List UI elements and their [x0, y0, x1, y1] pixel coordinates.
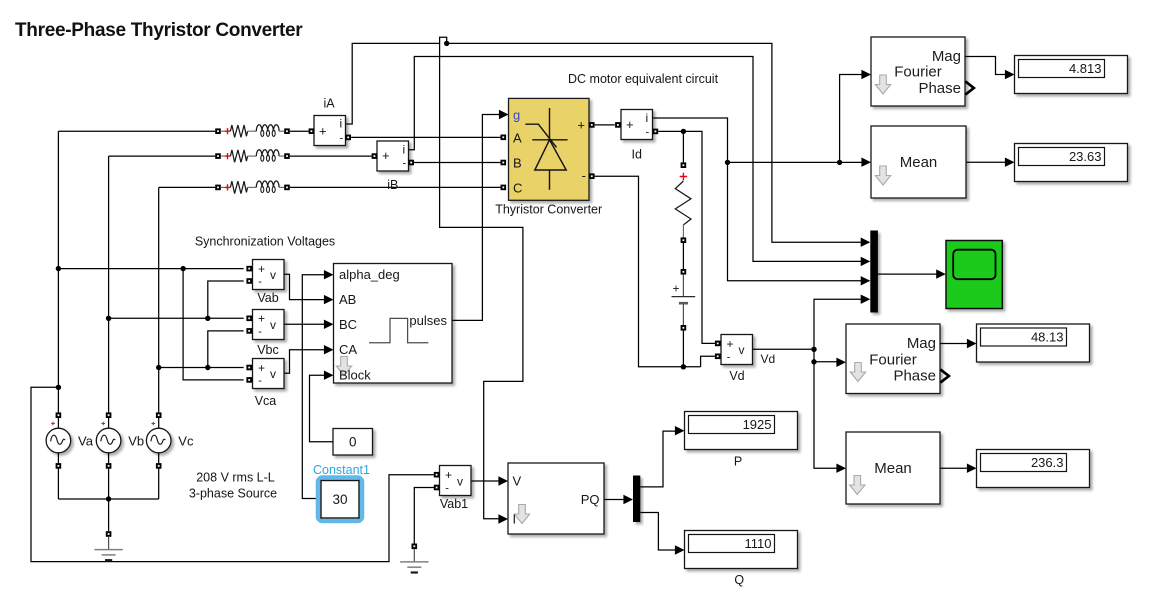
svg-text:iB: iB [387, 178, 398, 192]
wire Mean2 output to display 236.3 [940, 467, 968, 469]
RL branch phase B (series resistor and inductor) [215, 150, 290, 163]
wire constant 30 to alpha_deg input [302, 275, 325, 499]
svg-text:Va: Va [78, 433, 94, 448]
node junction load top [681, 129, 686, 134]
svg-text:I: I [513, 512, 517, 527]
svg-text:Mean: Mean [874, 460, 912, 477]
wire phase C column [158, 187, 160, 412]
svg-text:A: A [513, 130, 522, 145]
scope block (green) [936, 241, 1002, 309]
svg-text:Vab1: Vab1 [440, 497, 468, 511]
wire Vd v output to junction [753, 348, 815, 350]
current measurement block iB [372, 141, 414, 171]
svg-text:+: + [673, 282, 680, 296]
svg-text:iA: iA [323, 97, 335, 111]
synchronized 6-pulse generator block [324, 264, 452, 384]
svg-text:3-phase Source: 3-phase Source [189, 486, 277, 500]
svg-text:+: + [577, 117, 585, 132]
wire Fourier1 Mag to display 4.813 [965, 57, 1006, 75]
svg-text:v: v [270, 318, 276, 332]
svg-text:CA: CA [339, 342, 357, 357]
mux feeding scope [861, 231, 878, 313]
node junction Vab- tie on Vbc+ line [205, 316, 210, 321]
svg-text:i: i [403, 142, 406, 156]
wire Mean1 output to display 23.63 [966, 161, 1006, 163]
node junction load bottom [681, 364, 686, 369]
ground symbol under sources [94, 531, 122, 560]
wire phase B column [108, 156, 110, 412]
svg-text:C: C [513, 180, 522, 195]
svg-text:Phase: Phase [893, 368, 936, 385]
wire iA current signal riser to top run 1 [346, 43, 440, 124]
svg-text:PQ: PQ [581, 492, 600, 507]
svg-text:Mag: Mag [907, 335, 936, 352]
wire resistor bottom to battery top port [682, 243, 684, 269]
svg-text:+: + [626, 117, 634, 132]
svg-text:+: + [258, 361, 265, 375]
svg-text:48.13: 48.13 [1031, 330, 1064, 345]
svg-text:1925: 1925 [743, 417, 772, 432]
wire Vd signal up to mux input 4 [814, 299, 862, 349]
svg-text:Vb: Vb [128, 433, 144, 448]
wire RL C output to bridge C port [290, 186, 501, 188]
wire Vd signal branch to Fourier2 input [814, 361, 837, 363]
wire bridge + output to Id + input [595, 124, 615, 126]
svg-text:-: - [727, 351, 731, 363]
wire iB current signal riser to top run 2 [409, 57, 862, 262]
wire demux out 2 to display Q [640, 513, 676, 551]
svg-text:AB: AB [339, 292, 356, 307]
voltage measurement block Vd [715, 335, 753, 365]
node junction Vd signal upper [811, 347, 816, 352]
svg-text:+: + [319, 123, 327, 138]
wire iA branch down to PQ I input [440, 43, 523, 518]
svg-text:4.813: 4.813 [1069, 61, 1102, 76]
Fourier block 2 [836, 324, 948, 394]
svg-text:v: v [457, 475, 463, 489]
wire battery bottom port down to load bottom [682, 331, 684, 367]
constant block 0 [333, 429, 373, 456]
wire top run 1 to mux input 1 [447, 43, 862, 242]
wire Vca + from phase C [159, 367, 244, 369]
svg-text:-: - [258, 326, 262, 338]
constant block Constant1 value 30 (highlighted) [318, 478, 362, 522]
svg-text:Mean: Mean [900, 154, 938, 171]
svg-text:Mag: Mag [932, 48, 961, 65]
wire row B feeder to RL branch [109, 155, 216, 157]
svg-text:Vd: Vd [761, 352, 776, 366]
display P value 1925 [675, 412, 798, 450]
svg-text:-: - [403, 158, 407, 170]
svg-text:i: i [340, 117, 343, 131]
node junction Vca- tie on Vab+ line [180, 266, 185, 271]
svg-text:1110: 1110 [745, 536, 772, 551]
wire load top down to resistor port [682, 131, 684, 162]
node junction Vd signal lower [811, 359, 816, 364]
node junction on run 1 [444, 41, 449, 46]
svg-text:pulses: pulses [409, 313, 447, 328]
svg-text:-: - [258, 276, 262, 288]
wire constant 0 to Block input [310, 375, 334, 442]
wire top run 1 jog over corner with junction [440, 37, 447, 43]
wire iB - output to bridge B port [414, 162, 501, 164]
svg-text:Fourier: Fourier [894, 64, 942, 81]
svg-text:+: + [727, 337, 734, 351]
svg-text:DC motor equivalent circuit: DC motor equivalent circuit [568, 72, 719, 86]
voltage measurement block Vab1 [434, 466, 471, 496]
svg-text:Constant1: Constant1 [313, 463, 370, 477]
thyristor symbol inside bridge [525, 108, 567, 190]
wire iA - output to bridge A port [351, 136, 500, 138]
svg-text:+: + [445, 468, 452, 482]
AC voltage source Vc [146, 412, 171, 468]
svg-text:-: - [646, 127, 650, 139]
wire Vbc v output to pulse BC input [284, 323, 325, 325]
wire row C feeder to RL branch [159, 186, 216, 188]
svg-text:236.3: 236.3 [1031, 455, 1064, 470]
svg-text:Synchronization Voltages: Synchronization Voltages [195, 235, 335, 249]
RL branch phase A (series resistor and inductor) [215, 125, 290, 138]
svg-text:+: + [258, 312, 265, 326]
node junction phase C at Vca level [156, 365, 161, 370]
wire neutral down to ground 1 [108, 499, 110, 531]
svg-text:Three-Phase Thyristor Converte: Three-Phase Thyristor Converter [15, 20, 303, 41]
svg-text:P: P [734, 454, 742, 468]
wire phase A tap long loop to Vab1 + [31, 387, 434, 561]
demux for P and Q [623, 476, 640, 523]
display Q value 1110 [675, 531, 798, 569]
load resistor R (vertical) [675, 162, 691, 243]
Mean block 2 [836, 432, 940, 504]
power measurement block PQ [498, 463, 604, 534]
svg-text:B: B [513, 156, 522, 171]
wire RL A output to iA + [290, 130, 309, 132]
node junction phase B at Vbc level [106, 316, 111, 321]
wire phase A column (source Va to row A) [57, 131, 59, 412]
svg-text:v: v [739, 343, 745, 357]
wire Vab1 - to ground 2 [414, 488, 434, 544]
wire Id current signal to junction then Mean [653, 118, 863, 162]
AC voltage source Va [46, 412, 71, 468]
display Mean2 value 236.3 [967, 450, 1090, 488]
wire Vab + from phase A [58, 268, 243, 270]
svg-text:-: - [582, 168, 586, 183]
svg-text:V: V [513, 474, 522, 489]
wire Vab v output to pulse AB input [284, 274, 325, 299]
wire PQ output to demux [604, 499, 625, 501]
svg-text:Id: Id [631, 147, 641, 161]
display Fourier2 Mag value 48.13 [967, 324, 1090, 362]
svg-text:0: 0 [349, 435, 357, 450]
wire source B bottom to neutral [108, 468, 110, 499]
thyristor converter bridge block U1 [499, 98, 595, 200]
wire bridge - output down and right to load bottom [595, 176, 701, 367]
node junction phase A at Vab level [56, 266, 61, 271]
svg-text:Vab: Vab [257, 291, 278, 305]
wire source A bottom to neutral [57, 468, 59, 499]
svg-text:Fourier: Fourier [869, 352, 917, 369]
wire Vab1 v output to PQ V input [472, 480, 500, 482]
svg-text:i: i [646, 111, 649, 125]
Mean block 1 [861, 126, 966, 198]
svg-text:Phase: Phase [918, 80, 961, 97]
svg-text:30: 30 [332, 492, 347, 507]
svg-text:23.63: 23.63 [1069, 149, 1102, 164]
wire load bottom up to Vd - input [701, 356, 715, 367]
display Mean1 value 23.63 [1005, 144, 1128, 182]
node junction neutral [106, 496, 111, 501]
Fourier block 1 [861, 37, 973, 106]
svg-text:-: - [258, 375, 262, 387]
wire neutral bus [58, 498, 158, 500]
wire Id signal branch up to Fourier1 input [840, 75, 863, 163]
wire mux output to scope [878, 273, 937, 275]
svg-text:Vd: Vd [729, 369, 744, 383]
svg-text:-: - [445, 483, 449, 495]
wire Fourier2 Mag to display 48.13 [940, 343, 968, 345]
svg-text:v: v [270, 268, 276, 282]
wire Id signal branch down to mux input 3 [728, 162, 862, 280]
wire row A feeder to RL branch [58, 130, 215, 132]
ground symbol under Vab1 [400, 544, 428, 573]
current measurement block Id [615, 110, 658, 140]
svg-text:g: g [513, 108, 520, 123]
wire Vca - up to Vab+ line [183, 269, 244, 380]
svg-text:208 V rms L-L: 208 V rms L-L [196, 470, 275, 484]
voltage measurement block Vab [246, 260, 284, 290]
svg-text:+: + [382, 148, 390, 163]
svg-text:Vc: Vc [178, 433, 194, 448]
wire Vbc - to phase C riser [208, 331, 244, 368]
svg-text:Q: Q [734, 573, 744, 587]
wire source C bottom to neutral [158, 468, 160, 499]
node junction phase A lower tap [56, 385, 61, 390]
node junction Vbc- tie on Vca+ line [205, 365, 210, 370]
svg-text:-: - [340, 133, 344, 145]
svg-text:Vca: Vca [255, 394, 277, 408]
node junction Id signal at x727 [725, 160, 730, 165]
voltage measurement block Vbc [246, 310, 284, 340]
display Fourier1 Mag value 4.813 [1005, 56, 1128, 94]
voltage measurement block Vca [246, 359, 284, 389]
svg-text:Vbc: Vbc [257, 343, 279, 357]
svg-text:BC: BC [339, 317, 357, 332]
wire Vbc + from phase B [109, 317, 244, 319]
wire Vca v output to pulse CA input [284, 350, 325, 374]
wire pulses output up to bridge g input [452, 115, 500, 321]
current measurement block iA [309, 116, 351, 146]
node junction Id signal at x839 [837, 160, 842, 165]
RL branch phase C (series resistor and inductor) [215, 181, 290, 194]
svg-text:v: v [270, 367, 276, 381]
AC voltage source Vb [96, 412, 121, 468]
wire RL B output to iB + [290, 155, 372, 157]
wire Id - output to load top junction [658, 131, 715, 343]
svg-text:Thyristor Converter: Thyristor Converter [495, 203, 602, 217]
svg-text:+: + [258, 262, 265, 276]
wire demux out 1 to display P [640, 431, 676, 487]
wire Vd signal down to Mean2 input [814, 349, 837, 468]
load DC source E (battery) [672, 269, 696, 331]
svg-text:alpha_deg: alpha_deg [339, 267, 400, 282]
wire Vab - to phase B riser [208, 281, 244, 318]
svg-text:Block: Block [339, 368, 371, 383]
